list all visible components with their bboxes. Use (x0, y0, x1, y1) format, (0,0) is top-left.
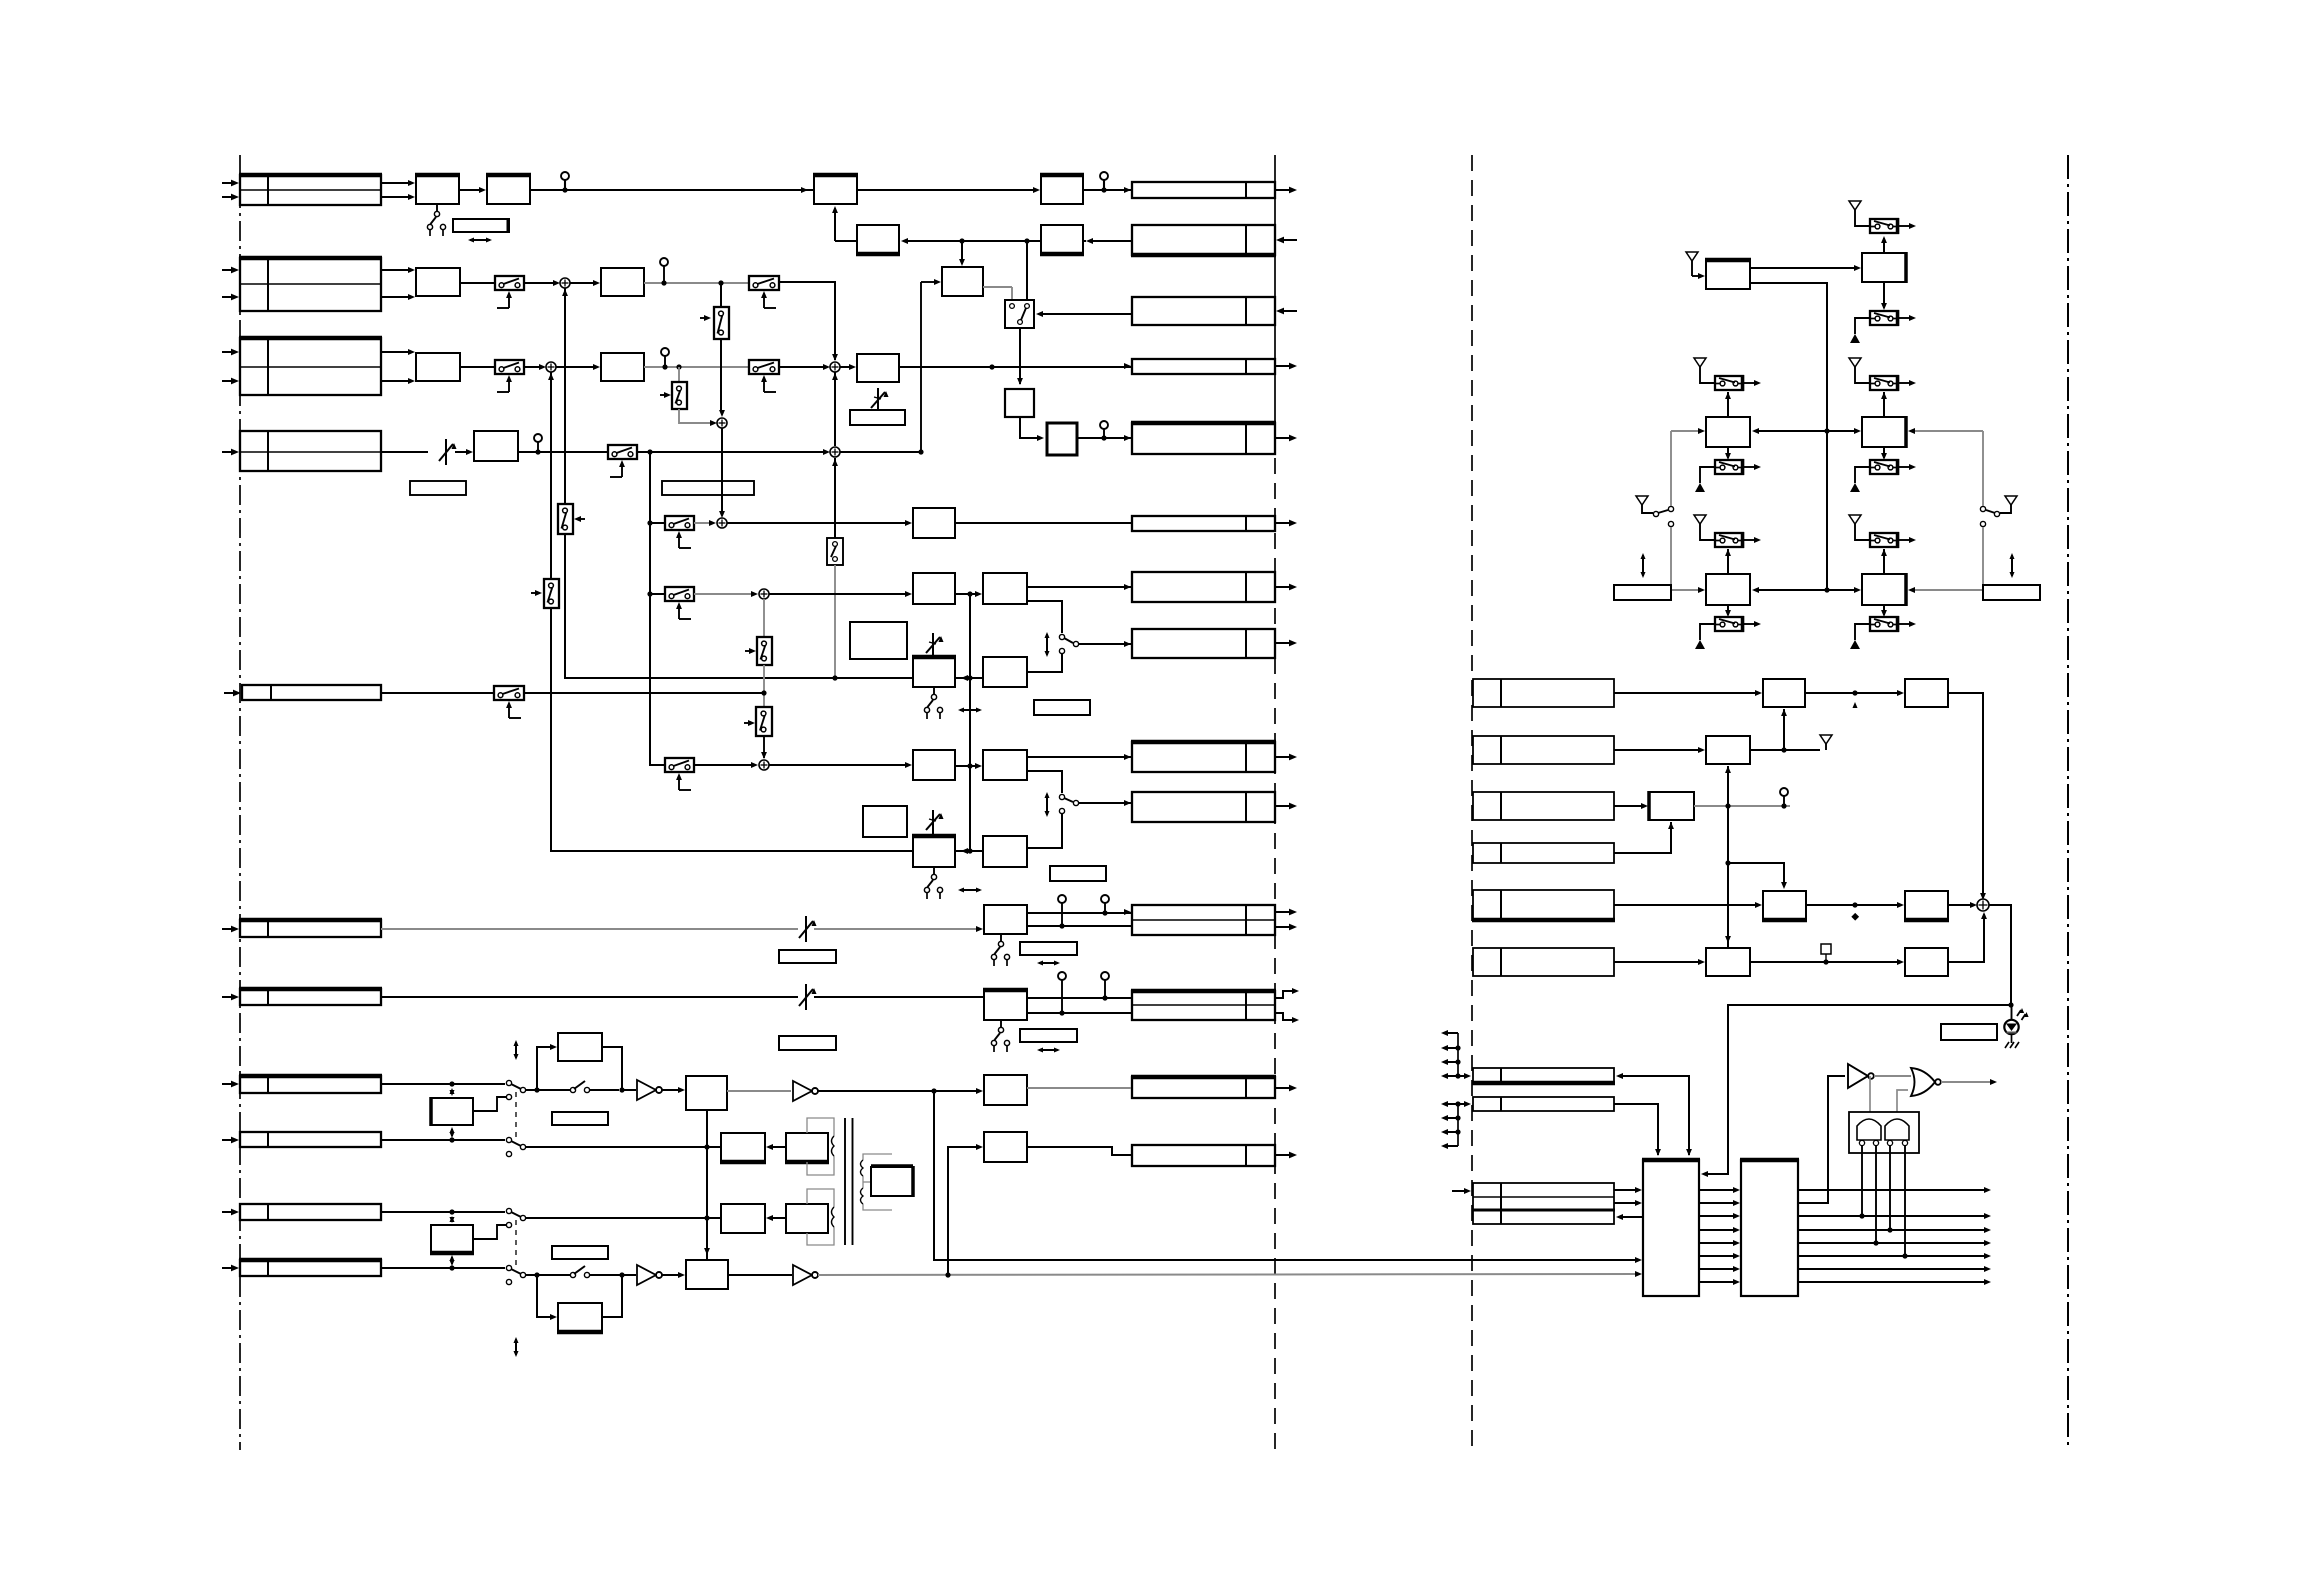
selector bus x650 (650, 452, 665, 765)
wire SW6 to sum P6 (694, 593, 752, 595)
relay cell M1 top (1715, 376, 1743, 390)
wire T1 to T2 (1750, 267, 1856, 269)
input connector J6 (240, 920, 381, 937)
output connector K4 (1132, 359, 1275, 374)
wire J6 gray row (381, 928, 798, 930)
label box LB2b (662, 481, 754, 495)
switch SW2b (749, 276, 779, 290)
elbow V1 to V2 (1020, 417, 1039, 438)
wire into B4 from row4 riser (921, 281, 936, 283)
wire B22 to right junction (602, 1047, 622, 1090)
wire below P9 to vertical changeover (834, 458, 836, 538)
block B2 (601, 268, 644, 296)
vertical double arrow at CO3 (1046, 794, 1048, 815)
switch below B13 (933, 687, 935, 694)
block D2 (1905, 679, 1948, 707)
wire CO5 to block B24 (526, 1146, 721, 1148)
wire into block B29 (707, 1217, 721, 1219)
output connector K5 (1132, 423, 1275, 454)
MCU block 1 (1643, 1160, 1699, 1296)
gang dashes CO4-CO5 (515, 1092, 517, 1138)
output connector K3 (1132, 297, 1275, 325)
EQ block group upper: left box (850, 622, 907, 659)
feedback riser x551 into P2 (550, 372, 552, 579)
wire B12 lower out to changeover CO2 (1027, 601, 1062, 633)
section boundary line center (1274, 155, 1276, 408)
buffer U3 (793, 1265, 812, 1285)
wire B8 to K4 (899, 366, 1131, 368)
wire M1 up to relay (1727, 392, 1729, 417)
changeover CO3 (1059, 794, 1064, 799)
label box LB6 (1020, 942, 1077, 955)
label box LBR1 (1614, 585, 1671, 600)
wire CO2 to K8 (1079, 643, 1131, 645)
wire J7 row (381, 996, 798, 998)
wire P6 to block B11 (769, 593, 906, 595)
link B28 to J11 row (451, 1257, 453, 1264)
wire D3 right with riser to D1 (1750, 749, 1820, 751)
center bus from T1 (1750, 283, 1827, 590)
block V2 (1047, 423, 1077, 455)
output connector K13 (1132, 1077, 1275, 1098)
wire bus to B1s right (1756, 589, 1827, 591)
branch to D5 top (1728, 863, 1784, 885)
block B15 (913, 750, 955, 780)
block T1 tuner (1706, 260, 1750, 289)
wire M1 down to relay (1727, 447, 1729, 458)
block B31 (558, 1303, 602, 1332)
block B17 (913, 836, 955, 867)
wire J5 row to gray chain (381, 692, 494, 694)
riser bus x835 P9 to P3 (834, 372, 836, 446)
relay cell M2 top (1870, 376, 1898, 390)
wire A2 to bus with test point (530, 189, 814, 191)
wire P3 to block B8 (840, 366, 851, 368)
input connector J7 (240, 989, 381, 1005)
buffer U2 (637, 1265, 656, 1285)
feedback riser x565 into P1 (564, 288, 566, 504)
wire into C6 from MCU riser (1620, 1076, 1689, 1155)
switch below B17 (933, 867, 935, 874)
EQ bidirectional link upper (955, 677, 1027, 679)
block B2s (1862, 574, 1906, 605)
connector C1 (1473, 679, 1614, 707)
section boundary line far right (dash-dot) (2067, 155, 2069, 1450)
sum P7 (759, 760, 769, 770)
CO1 common drop (1019, 328, 1021, 384)
drop to changeover CO1 (1026, 241, 1028, 303)
drop from row2 junction to vswitch E1 (720, 283, 722, 307)
wire B6 to switch SW3 (460, 366, 495, 368)
block B4 (942, 267, 983, 296)
block B1 (416, 268, 460, 296)
wire U1b to junction (818, 1090, 934, 1092)
input connector J9 (240, 1132, 381, 1147)
block B13 (913, 657, 955, 687)
input connector J3 (2ch) (240, 338, 381, 395)
wire C5b to D7 (1614, 961, 1699, 963)
NOR gate U5 (1911, 1068, 1935, 1096)
block B18 (983, 836, 1027, 867)
LED indicator (2011, 1005, 2013, 1020)
attenuator AT2 (805, 916, 807, 942)
wire D4 output with test point (1694, 805, 1790, 807)
switch SW4 (608, 445, 637, 459)
wire J9 row (381, 1139, 505, 1141)
wire AT1 to block B9 (455, 451, 467, 453)
double arrow below B17 (960, 889, 980, 891)
attenuator above B13 (932, 633, 934, 659)
block M1 (1706, 417, 1750, 447)
wire CO2 bottom throw to B14 (1027, 654, 1062, 672)
wire B2s top relay (1883, 549, 1885, 574)
sum P6 (759, 589, 769, 599)
block B11 (913, 573, 955, 604)
wire B1s top relay (1727, 549, 1729, 574)
block B26 DAC (871, 1167, 913, 1196)
input connector J11 (240, 1260, 381, 1276)
block B14 (983, 657, 1027, 687)
wire B15 to B16 (955, 765, 976, 767)
attenuator above B17 (932, 810, 934, 836)
wire B5p to B3p with junctions (905, 240, 1041, 242)
block D5 (1763, 891, 1806, 920)
output connector K14 (1132, 1145, 1275, 1166)
wire AT3 to block B20 (814, 996, 983, 998)
wire gray to M2 right (1912, 430, 1983, 432)
wire B30 to B29 arrow (769, 1217, 786, 1219)
wire bus to M2 left (1827, 430, 1856, 432)
wire SW5 to sum P5 (694, 522, 711, 524)
link B21 to J9 row (451, 1129, 453, 1136)
vertical switch E0 (672, 382, 687, 409)
wire A3 to A4 (857, 189, 1034, 191)
wire B3p to riser (835, 240, 857, 242)
switch SW2 (495, 276, 524, 290)
relay cell M2 bottom (1870, 460, 1898, 474)
wire U2 to block B27 (662, 1274, 680, 1276)
MCU2 line to inverter (1798, 1076, 1845, 1203)
relay cell B1s top (1715, 533, 1743, 547)
switch S1 below A1 (436, 204, 438, 211)
changeover CO4 (506, 1080, 511, 1085)
block A2 (487, 175, 530, 204)
winding loop lower transformer (807, 1189, 834, 1207)
wire C4 to D4 bottom (1614, 822, 1671, 853)
input connector J1 (2ch) (240, 175, 381, 205)
sum P3 (830, 362, 840, 372)
wire CO6 to transport row (526, 1217, 707, 1219)
switch SW6 row6 (665, 587, 694, 601)
wire J11 row (381, 1267, 505, 1269)
wire U3 gray to MCU (818, 1274, 1637, 1275)
wire M2 top relay (1883, 392, 1885, 417)
section boundary line right-center (dashed) (1471, 155, 1473, 1450)
wire C7 to MCU (1614, 1104, 1658, 1155)
wire C2 to D3 (1614, 749, 1699, 751)
attenuator below B8 (877, 388, 879, 414)
label box LB9 (779, 1036, 836, 1050)
wire A1 to A2 (459, 189, 480, 191)
bus x1728 down (1727, 806, 1729, 948)
block B7 (601, 353, 644, 381)
LED ground (2011, 1034, 2013, 1043)
center contact path B28 to CO6 (473, 1225, 506, 1239)
EQ block group lower: left box (863, 806, 907, 837)
wire P1 to block B2 (570, 282, 595, 284)
sum P1 (560, 278, 570, 288)
block B22 (558, 1033, 602, 1061)
gate box with two AND gates (1849, 1112, 1919, 1153)
block B9 (474, 431, 518, 461)
wire J10 row (381, 1211, 505, 1213)
sum P5 (717, 518, 727, 528)
vertical double arrow right (2011, 555, 2013, 576)
sum P4 (717, 418, 727, 428)
block D1 (1763, 679, 1805, 707)
wire V2 to K5 with test point (1077, 437, 1131, 439)
vertical switch E3 (756, 707, 772, 736)
changeover CO7 (506, 1265, 511, 1270)
output connector K10 (1132, 792, 1275, 822)
block B12 (983, 573, 1027, 604)
gang dashes CO6-CO7 (515, 1220, 517, 1266)
wire AT2 to block B19 (814, 928, 977, 930)
EQ bidirectional link lower (955, 850, 1027, 852)
connector C9 (3 rows) (1473, 1183, 1614, 1224)
wire B4 gray throw (983, 286, 1012, 288)
vertical changeover VC1 (827, 538, 843, 565)
block D6 (1905, 891, 1948, 920)
wires C9 to MCU1 (1614, 1189, 1637, 1191)
gray drop VC1 to EQ bus (834, 565, 836, 678)
wire D5 to D6 with junction (1806, 904, 1898, 906)
wire J3 to block B6 (381, 351, 410, 353)
relay cell T2 top (1870, 219, 1898, 233)
section boundary line left (dash-dot) (239, 155, 241, 1450)
MCU block 2 (1741, 1160, 1798, 1296)
wire B1 to switch SW2 (460, 282, 495, 284)
wire input arrows at boundary (1282, 239, 1297, 241)
wire C1 to D1 (1614, 692, 1757, 694)
sum P9 (830, 447, 840, 457)
input connector J10 (240, 1204, 381, 1220)
wire bus to M1 right (1756, 430, 1827, 432)
wire J2 to block B1 (381, 269, 410, 271)
wire B11 to B12 (955, 593, 976, 595)
gray taps into gate box (1869, 1076, 1871, 1112)
left headphone changeover (1636, 496, 1648, 505)
vertical double arrow above CO4 (515, 1042, 517, 1058)
antenna input symbol for block T1 (1686, 252, 1698, 261)
relay cell M1 bottom (1715, 460, 1743, 474)
block B30 (786, 1204, 828, 1233)
block A3 (814, 175, 857, 204)
bypass switch open (526, 1089, 570, 1091)
wire SW2b corner down to P3 (779, 282, 835, 360)
block B8 (857, 354, 899, 382)
block D4 (1649, 792, 1694, 820)
inverter U4 (1848, 1064, 1868, 1088)
block T2 (1862, 253, 1906, 282)
connector C5b (1473, 948, 1614, 976)
changeover CO2 (1059, 634, 1064, 639)
wire T2 down to relay (1883, 282, 1885, 308)
changeover CO1 (1005, 300, 1034, 328)
label box LB2a (410, 481, 466, 495)
vertical switch C on riser x565 (558, 504, 573, 534)
switch SW3 (495, 360, 524, 374)
relay cell B2s bottom (1870, 617, 1898, 631)
label box LB5 (1050, 866, 1106, 881)
double arrow below B13 (960, 709, 980, 711)
bypass junction left (534, 1087, 539, 1092)
block B25 (786, 1133, 828, 1162)
wire B27 to buffer U3 (728, 1274, 792, 1276)
wire D7 to D8 with test square (1750, 961, 1898, 963)
gray chain into sum P7 (763, 736, 765, 758)
block A1 (416, 175, 459, 204)
wire down to block B31 (537, 1275, 551, 1317)
vertical switch D on riser x551 (544, 579, 559, 608)
riser x565 lower and corner to EQ bus L1 (565, 534, 912, 678)
wire E1 to P4 (720, 339, 722, 412)
wire P5 to block B10 (727, 522, 906, 524)
vertical double arrow left (1642, 555, 1644, 576)
wire K3 into CO1 (1040, 313, 1131, 315)
winding loop upper transformer T1 (807, 1118, 834, 1136)
wire B16 lower out to changeover CO3 (1027, 771, 1062, 793)
input connector J2 (2ch) (240, 258, 381, 311)
attenuator AT3 (805, 984, 807, 1010)
gray elbow into sum P4 (679, 409, 712, 423)
wire CO3 to K10 (1079, 802, 1131, 804)
wire D8 up to sum P8 (1948, 914, 1984, 962)
wire U1 to block B23 (662, 1089, 680, 1091)
wire output arrows at boundary (1275, 189, 1290, 191)
wire bus to B2s left (1827, 589, 1856, 591)
input arrow into C9 (1452, 1190, 1465, 1192)
block B19 (984, 905, 1027, 934)
output connector K9 (1132, 742, 1275, 772)
center contact path B21 to CO4 (473, 1097, 506, 1111)
wire B9 along row4 with test point (518, 451, 608, 453)
wire B2 output with test point (644, 282, 749, 284)
control bus stubs upper (1457, 1033, 1459, 1076)
block B3p (857, 225, 899, 254)
wire B2s bottom relay (1883, 605, 1885, 615)
block B6 (416, 353, 460, 381)
block M2 (1862, 417, 1906, 447)
gray riser right changeover (1982, 431, 1984, 506)
wires B20 to K12 with test points (1027, 997, 1131, 999)
wire M2 bottom relay (1883, 447, 1885, 458)
core lines T1 (844, 1118, 846, 1245)
block B27 (686, 1260, 728, 1289)
secondary winding loop (863, 1154, 892, 1160)
wire NOR output (1941, 1081, 1990, 1083)
gray chain from P6 to vswitch E2 (763, 599, 765, 637)
drop to block B4 (961, 241, 963, 262)
label box LB7 (779, 950, 836, 963)
wire gray to B2s right (1912, 589, 1983, 591)
switch below B20 (1000, 1020, 1002, 1027)
sum P8 output loop to MCU (1706, 905, 2011, 1174)
wire SW3b to sum P3 (779, 366, 824, 368)
wire SW2 to sum P1 (524, 282, 554, 284)
sum P8 (1977, 899, 1989, 911)
wire to buffer U1 (622, 1089, 636, 1091)
sum P2 (546, 362, 556, 372)
block D3 (1706, 736, 1750, 764)
wire SW4 to sum P9 (637, 451, 824, 453)
output connector K7 (1132, 572, 1275, 602)
switch SW7 row9 (665, 758, 694, 772)
switch SW5 row5 (665, 516, 694, 530)
label box LB11 (552, 1246, 608, 1259)
wire J1 to block A1 (381, 182, 410, 184)
wire gray to B1s left (1671, 589, 1700, 591)
relay cell B1s bottom (1715, 617, 1743, 631)
connector C7 (1473, 1097, 1614, 1111)
block D7 (1706, 948, 1750, 976)
wire P2 to block B7 (556, 366, 595, 368)
relay cell B2s top (1870, 533, 1898, 547)
label box LB12 (1941, 1024, 1997, 1040)
wire T2 up to relay (1883, 238, 1885, 253)
wire B31 to right junction (602, 1275, 622, 1317)
vertical switch E1 (714, 307, 729, 339)
vertical double arrow below CO7 (515, 1339, 517, 1355)
output connector K6 (1132, 516, 1275, 531)
connector C2 (1473, 736, 1614, 764)
block A4 (1041, 175, 1083, 204)
connector C6 (1473, 1068, 1614, 1083)
label box LBR2 (1983, 585, 2040, 600)
block B21 (431, 1098, 473, 1125)
wire C5 to D5 (1614, 904, 1757, 906)
wire jog output arrows K12 (1275, 991, 1292, 998)
block B29 (721, 1204, 765, 1233)
wire B12 upper out to K7 (1027, 586, 1131, 588)
buffer U1 (637, 1080, 656, 1100)
wire B32 gray to K13 (1027, 1087, 1131, 1089)
input connector J8 (240, 1076, 381, 1093)
input connector J4 (240, 431, 381, 471)
riser into A3 (834, 208, 836, 241)
wire B25 to B24 arrow (769, 1146, 786, 1148)
block B28 (431, 1225, 473, 1253)
wire B23 out gray to buffer U1b (727, 1090, 791, 1092)
drop bus x707 from B23 (706, 1110, 708, 1260)
vertical double arrow at CO2 (1046, 634, 1048, 655)
block B1s (1706, 574, 1750, 605)
wire CO3 bottom throw to B18 (1027, 814, 1062, 848)
label box LB8 (1020, 1029, 1077, 1042)
block B32 (984, 1075, 1027, 1105)
wire P9 to riser x921 (840, 451, 921, 453)
switch SW8 on J5 row (494, 686, 524, 700)
return bus K2 to B3p (1090, 240, 1131, 242)
bypass switch open lower (526, 1274, 570, 1276)
link J10 to block B28 (451, 1218, 453, 1221)
bypass junction left lower (534, 1272, 539, 1277)
wire B1s bottom relay (1727, 605, 1729, 615)
block B24 (721, 1133, 765, 1162)
vertical switch E2 (757, 637, 772, 665)
wire U4 to NOR (1874, 1075, 1911, 1077)
relay cell T2 bottom (1870, 311, 1898, 325)
